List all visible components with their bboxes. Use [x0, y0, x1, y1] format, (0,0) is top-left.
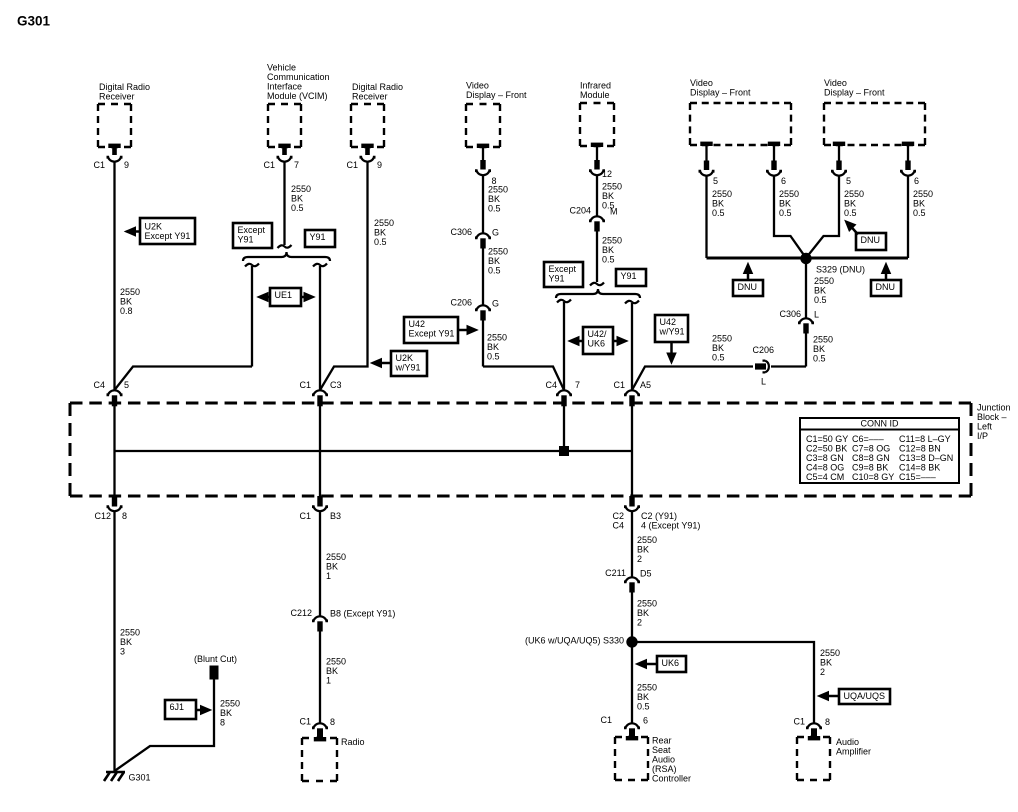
svg-text:Display – Front: Display – Front [824, 88, 885, 98]
svg-text:DNU: DNU [738, 282, 758, 292]
svg-text:Y91: Y91 [621, 271, 637, 281]
svg-text:2: 2 [820, 667, 825, 677]
svg-text:Digital Radio: Digital Radio [352, 82, 403, 92]
svg-text:C10=8 GY: C10=8 GY [852, 472, 894, 482]
svg-text:0.5: 0.5 [813, 354, 826, 364]
svg-text:2550: 2550 [844, 189, 864, 199]
svg-text:0.5: 0.5 [637, 702, 650, 712]
svg-text:Seat: Seat [652, 745, 671, 755]
svg-text:0.5: 0.5 [779, 208, 792, 218]
svg-text:5: 5 [124, 380, 129, 390]
svg-text:BK: BK [813, 344, 825, 354]
svg-text:C12: C12 [94, 511, 111, 521]
svg-text:BK: BK [602, 191, 614, 201]
svg-text:C204: C204 [569, 206, 591, 216]
svg-text:C8=8 GN: C8=8 GN [852, 453, 890, 463]
svg-text:Y91: Y91 [549, 274, 565, 284]
svg-text:Vehicle: Vehicle [267, 63, 296, 73]
svg-text:M: M [610, 207, 618, 217]
svg-text:Communication: Communication [267, 72, 330, 82]
svg-text:Video: Video [466, 81, 489, 91]
svg-text:0.5: 0.5 [374, 237, 387, 247]
svg-text:2: 2 [637, 618, 642, 628]
svg-text:C211: C211 [605, 568, 626, 578]
svg-text:C4: C4 [612, 521, 624, 531]
svg-text:2550: 2550 [820, 648, 840, 658]
svg-text:2550: 2550 [712, 189, 732, 199]
svg-text:C14=8 BK: C14=8 BK [899, 463, 940, 473]
svg-text:UQA/UQS: UQA/UQS [844, 691, 886, 701]
svg-text:C1: C1 [263, 160, 275, 170]
svg-text:Digital Radio: Digital Radio [99, 82, 150, 92]
svg-text:C1: C1 [299, 511, 311, 521]
svg-text:0.5: 0.5 [487, 352, 500, 362]
svg-text:Except Y91: Except Y91 [409, 329, 455, 339]
svg-text:G301: G301 [129, 773, 151, 783]
svg-text:0.5: 0.5 [814, 295, 827, 305]
svg-text:Video: Video [824, 78, 847, 88]
svg-text:I/P: I/P [977, 431, 988, 441]
svg-text:C4: C4 [545, 380, 557, 390]
svg-text:2550: 2550 [779, 189, 799, 199]
svg-text:C6=–––: C6=––– [852, 434, 884, 444]
svg-text:Module (VCIM): Module (VCIM) [267, 91, 328, 101]
svg-text:C2=50 BK: C2=50 BK [806, 444, 847, 454]
svg-text:BK: BK [913, 199, 925, 209]
svg-text:0.5: 0.5 [913, 208, 926, 218]
svg-text:D5: D5 [640, 569, 652, 579]
svg-text:Receiver: Receiver [99, 92, 135, 102]
svg-text:2550: 2550 [637, 535, 657, 545]
svg-text:0.5: 0.5 [712, 208, 725, 218]
svg-text:B3: B3 [330, 511, 341, 521]
svg-text:Radio: Radio [341, 737, 365, 747]
svg-text:C1: C1 [600, 715, 612, 725]
svg-text:Display – Front: Display – Front [690, 88, 751, 98]
svg-text:Interface: Interface [267, 82, 302, 92]
svg-text:w/Y91: w/Y91 [395, 363, 421, 373]
svg-text:Infrared: Infrared [580, 81, 611, 91]
svg-text:BK: BK [844, 199, 856, 209]
svg-text:DNU: DNU [861, 235, 881, 245]
svg-text:2550: 2550 [326, 552, 346, 562]
svg-text:C2 (Y91): C2 (Y91) [641, 511, 677, 521]
svg-text:4 (Except Y91): 4 (Except Y91) [641, 521, 700, 531]
svg-text:C13=8 D–GN: C13=8 D–GN [899, 453, 953, 463]
svg-text:BK: BK [326, 666, 338, 676]
svg-text:C3: C3 [330, 380, 342, 390]
svg-text:5: 5 [713, 176, 718, 186]
svg-text:0.5: 0.5 [291, 203, 304, 213]
svg-text:0.5: 0.5 [488, 266, 501, 276]
svg-text:A5: A5 [640, 380, 651, 390]
svg-text:(UK6 w/UQA/UQ5) S330: (UK6 w/UQA/UQ5) S330 [525, 636, 624, 646]
svg-text:UK6: UK6 [662, 658, 680, 668]
svg-text:BK: BK [712, 199, 724, 209]
svg-text:Receiver: Receiver [352, 92, 388, 102]
svg-text:0.5: 0.5 [602, 255, 615, 265]
svg-text:C4: C4 [93, 380, 105, 390]
svg-text:Y91: Y91 [238, 235, 254, 245]
svg-text:CONN ID: CONN ID [861, 419, 900, 429]
svg-text:BK: BK [637, 545, 649, 555]
svg-text:2550: 2550 [291, 184, 311, 194]
svg-text:BK: BK [779, 199, 791, 209]
svg-text:C212: C212 [290, 608, 312, 618]
svg-text:U2K: U2K [396, 353, 414, 363]
svg-text:Audio: Audio [836, 737, 859, 747]
svg-text:Amplifier: Amplifier [836, 747, 871, 757]
svg-text:C1: C1 [93, 160, 105, 170]
svg-text:Block –: Block – [977, 412, 1007, 422]
svg-text:Controller: Controller [652, 774, 691, 784]
svg-text:U42: U42 [660, 317, 677, 327]
svg-text:BK: BK [291, 194, 303, 204]
svg-text:12: 12 [602, 169, 612, 179]
svg-text:C1: C1 [613, 380, 625, 390]
svg-text:2550: 2550 [712, 334, 732, 344]
svg-text:8: 8 [330, 717, 335, 727]
svg-text:BK: BK [120, 637, 132, 647]
svg-text:(RSA): (RSA) [652, 764, 677, 774]
svg-text:6: 6 [781, 176, 786, 186]
svg-text:UE1: UE1 [275, 290, 293, 300]
svg-text:Audio: Audio [652, 755, 675, 765]
svg-text:DNU: DNU [876, 282, 896, 292]
svg-text:BK: BK [712, 343, 724, 353]
svg-text:BK: BK [487, 342, 499, 352]
svg-text:BK: BK [326, 562, 338, 572]
svg-text:C306: C306 [450, 227, 472, 237]
svg-text:Except: Except [549, 264, 577, 274]
svg-text:C1: C1 [346, 160, 358, 170]
svg-text:L: L [761, 377, 766, 387]
svg-text:6: 6 [643, 716, 648, 726]
svg-text:Rear: Rear [652, 736, 672, 746]
svg-text:U2K: U2K [145, 222, 163, 232]
svg-text:Display – Front: Display – Front [466, 90, 527, 100]
svg-text:Except Y91: Except Y91 [145, 231, 191, 241]
svg-text:BK: BK [820, 658, 832, 668]
svg-text:C206: C206 [752, 345, 774, 355]
svg-text:Module: Module [580, 90, 610, 100]
svg-text:0.5: 0.5 [488, 204, 501, 214]
svg-text:C306: C306 [779, 309, 801, 319]
svg-text:Left: Left [977, 422, 993, 432]
svg-text:2550: 2550 [488, 247, 508, 257]
svg-text:C11=8 L–GY: C11=8 L–GY [899, 434, 951, 444]
svg-text:2550: 2550 [120, 628, 140, 638]
svg-text:B8 (Except Y91): B8 (Except Y91) [330, 609, 395, 619]
svg-text:2550: 2550 [487, 333, 507, 343]
svg-text:2550: 2550 [220, 699, 240, 709]
svg-text:2550: 2550 [602, 236, 622, 246]
svg-text:0.5: 0.5 [844, 208, 857, 218]
svg-text:w/Y91: w/Y91 [659, 327, 685, 337]
svg-text:3: 3 [120, 647, 125, 657]
svg-text:0.8: 0.8 [120, 306, 133, 316]
svg-text:2550: 2550 [637, 599, 657, 609]
svg-text:2550: 2550 [814, 276, 834, 286]
svg-text:U42: U42 [409, 319, 426, 329]
svg-text:C206: C206 [450, 298, 472, 308]
svg-text:2550: 2550 [813, 335, 833, 345]
svg-text:2550: 2550 [374, 218, 394, 228]
svg-text:7: 7 [294, 160, 299, 170]
svg-text:C1=50 GY: C1=50 GY [806, 434, 848, 444]
svg-text:7: 7 [575, 380, 580, 390]
svg-text:1: 1 [326, 571, 331, 581]
svg-text:C9=8 BK: C9=8 BK [852, 463, 888, 473]
svg-text:BK: BK [814, 286, 826, 296]
svg-text:C2: C2 [612, 511, 624, 521]
svg-text:C1: C1 [793, 717, 805, 727]
svg-text:C5=4 CM: C5=4 CM [806, 472, 844, 482]
svg-text:8: 8 [122, 511, 127, 521]
svg-text:C12=8 BN: C12=8 BN [899, 444, 941, 454]
svg-text:G: G [492, 228, 499, 238]
svg-text:2550: 2550 [488, 185, 508, 195]
svg-text:BK: BK [220, 708, 232, 718]
svg-text:9: 9 [124, 160, 129, 170]
svg-text:C3=8 GN: C3=8 GN [806, 453, 844, 463]
svg-text:BK: BK [637, 692, 649, 702]
svg-text:C15=–––: C15=––– [899, 472, 936, 482]
svg-text:(Blunt Cut): (Blunt Cut) [194, 654, 237, 664]
svg-text:9: 9 [377, 160, 382, 170]
svg-text:8: 8 [220, 718, 225, 728]
svg-text:G301: G301 [17, 14, 51, 29]
svg-text:Except: Except [238, 225, 266, 235]
svg-text:2: 2 [637, 554, 642, 564]
svg-text:Junction: Junction [977, 403, 1011, 413]
svg-text:C7=8 OG: C7=8 OG [852, 444, 890, 454]
svg-text:UK6: UK6 [588, 339, 606, 349]
svg-text:BK: BK [488, 256, 500, 266]
svg-text:C1: C1 [299, 380, 311, 390]
svg-text:BK: BK [120, 297, 132, 307]
svg-text:2550: 2550 [913, 189, 933, 199]
svg-text:Y91: Y91 [310, 232, 326, 242]
svg-text:1: 1 [326, 676, 331, 686]
svg-text:BK: BK [374, 228, 386, 238]
svg-text:2550: 2550 [326, 657, 346, 667]
svg-text:8: 8 [825, 717, 830, 727]
svg-text:0.5: 0.5 [712, 353, 725, 363]
svg-text:BK: BK [488, 194, 500, 204]
svg-text:2550: 2550 [602, 182, 622, 192]
svg-text:2550: 2550 [120, 287, 140, 297]
svg-text:G: G [492, 299, 499, 309]
svg-text:C4=8 OG: C4=8 OG [806, 463, 844, 473]
svg-text:BK: BK [602, 245, 614, 255]
svg-text:Video: Video [690, 78, 713, 88]
svg-text:C1: C1 [299, 717, 311, 727]
svg-text:6J1: 6J1 [170, 702, 185, 712]
svg-text:L: L [814, 310, 819, 320]
svg-text:6: 6 [914, 176, 919, 186]
svg-text:S329 (DNU): S329 (DNU) [816, 265, 865, 275]
svg-text:5: 5 [846, 176, 851, 186]
svg-text:BK: BK [637, 608, 649, 618]
svg-text:U42/: U42/ [588, 329, 608, 339]
svg-text:2550: 2550 [637, 683, 657, 693]
